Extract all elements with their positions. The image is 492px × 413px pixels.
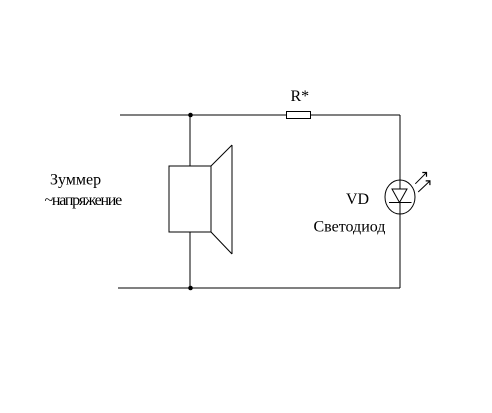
svg-text:R*: R* bbox=[291, 88, 310, 105]
node junction bottom bbox=[188, 286, 193, 291]
resistor R* bbox=[287, 112, 311, 119]
wire buzzer top lead bbox=[189, 115, 191, 166]
wire bottom bbox=[118, 287, 400, 289]
wire buzzer bottom lead bbox=[189, 232, 191, 288]
wire top-left segment bbox=[120, 114, 286, 116]
LED VD cathode bar bbox=[389, 202, 412, 204]
buzzer body rectangle bbox=[169, 166, 211, 232]
LED arrow 2 head bbox=[426, 181, 430, 185]
node junction top bbox=[188, 113, 193, 118]
svg-text:~напряжение: ~напряжение bbox=[45, 192, 123, 209]
buzzer horn top diagonal bbox=[211, 145, 232, 166]
wire right vertical upper (corner to LED triangle) bbox=[399, 115, 401, 189]
buzzer horn bottom diagonal bbox=[211, 232, 232, 254]
LED arrow 2 shaft bbox=[418, 181, 429, 192]
LED arrow 1 head bbox=[422, 173, 426, 177]
buzzer horn vertical edge bbox=[231, 145, 233, 254]
LED VD circle bbox=[385, 180, 415, 214]
svg-text:Зуммер: Зуммер bbox=[50, 172, 101, 189]
wire top-right segment (resistor to corner) bbox=[311, 114, 401, 116]
LED VD triangle bbox=[392, 189, 407, 203]
svg-text:Светодиод: Светодиод bbox=[314, 219, 386, 236]
wire right vertical lower (LED cathode to corner) bbox=[399, 203, 401, 289]
LED arrow 1 shaft bbox=[415, 173, 426, 184]
svg-text:VD: VD bbox=[346, 191, 369, 208]
